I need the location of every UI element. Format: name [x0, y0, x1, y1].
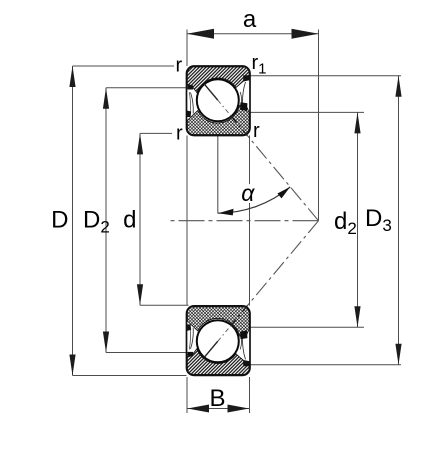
seal inner lip curve left: [189, 329, 190, 349]
outer ring (hatched): [187, 67, 249, 93]
arrow d2 down: [354, 306, 360, 327]
contact cone line crossing bottom bearing corner: [231, 306, 247, 325]
extension D2 top: [106, 87, 187, 89]
arrow D3 down: [395, 344, 401, 365]
extension D top: [73, 65, 175, 67]
alpha arc: [218, 187, 290, 213]
extension a right (to apex): [318, 30, 320, 221]
dimension a line: [187, 33, 319, 35]
contact radius solid: [204, 341, 218, 357]
extension d bottom: [140, 304, 189, 306]
extension a left: [186, 30, 188, 67]
seal right lower lip: [240, 330, 247, 339]
label alpha halo: [240, 184, 258, 203]
extension D bottom: [73, 375, 187, 377]
arrow d2 up: [354, 112, 360, 133]
arrow a right: [292, 29, 319, 39]
ball: [197, 79, 239, 121]
ball: [197, 320, 239, 362]
outer ring (hatched): [187, 349, 249, 375]
seal lip curve right: [243, 338, 246, 360]
arrow D up: [69, 66, 75, 87]
seal right upper anchor: [243, 361, 249, 367]
dimension D2 line: [105, 88, 107, 353]
extension d2 bottom: [250, 326, 364, 328]
seal lip curve right: [243, 82, 246, 104]
contact cone line crossing top bearing corner: [231, 116, 247, 135]
dimension d2 line: [357, 112, 359, 327]
slender dimension arrows: [69, 29, 401, 413]
bearing body outline: [187, 306, 251, 376]
arrow d up: [137, 133, 143, 154]
extension d2 top: [250, 111, 364, 113]
contact dash inside ball: [218, 325, 232, 341]
extension D3 bottom: [250, 364, 401, 366]
arrow d down: [137, 284, 143, 305]
svg-text:d: d: [123, 207, 136, 234]
arrow D2 up: [103, 88, 109, 109]
arrow D down: [69, 355, 75, 376]
extension B right: [249, 377, 251, 413]
dimension d line: [139, 133, 141, 305]
extension right edge between bearings: [249, 136, 251, 306]
seal left lower lip: [187, 324, 191, 331]
seal left upper anchor: [187, 352, 193, 358]
extension D2 bottom: [106, 352, 187, 354]
seal left lower lip: [187, 111, 191, 118]
alpha arrow right: [277, 187, 290, 199]
arrow D2 down: [103, 332, 109, 353]
seal inner lip curve left: [189, 92, 190, 112]
svg-text:r: r: [176, 123, 183, 145]
seal lip curve left: [191, 328, 194, 349]
axis centerline: [170, 220, 319, 222]
svg-text:B: B: [209, 385, 225, 412]
dimension D3 line: [398, 76, 400, 365]
dimension D line: [72, 66, 74, 376]
extension d top (leader to r): [140, 132, 172, 134]
inner ring (hatched): [187, 104, 249, 134]
arrow B left: [188, 405, 210, 413]
arrow a left: [187, 29, 214, 39]
seal right lower lip: [240, 102, 247, 111]
extension left edge between bearings: [186, 136, 188, 306]
dimension B line: [187, 408, 250, 410]
alpha arrow left: [218, 209, 233, 216]
cage arc right: [240, 334, 241, 349]
svg-text:α: α: [241, 180, 255, 206]
cage arc right: [240, 92, 241, 107]
arrow D3 up: [395, 76, 401, 97]
contact radius solid: [204, 84, 218, 100]
arrow B right: [228, 405, 250, 413]
contact cone line upper (ball to apex): [218, 100, 319, 221]
seal lip curve left: [191, 93, 194, 114]
contact cone line lower (ball to apex): [218, 221, 319, 341]
svg-text:D: D: [51, 207, 68, 234]
bearing body outline: [187, 66, 251, 136]
extension B left: [186, 377, 188, 413]
bottom bearing section (mirrored, cross-hatched): [187, 306, 251, 376]
seal left upper anchor: [187, 84, 193, 90]
svg-text:r: r: [253, 120, 260, 142]
extension D3 top: [250, 75, 401, 77]
contact dash inside ball: [218, 100, 232, 116]
svg-text:r: r: [176, 55, 183, 77]
svg-text:a: a: [243, 6, 257, 33]
inner ring (hatched): [187, 307, 249, 337]
seal right upper anchor: [243, 75, 249, 81]
radial line from top ball center: [217, 100, 219, 213]
